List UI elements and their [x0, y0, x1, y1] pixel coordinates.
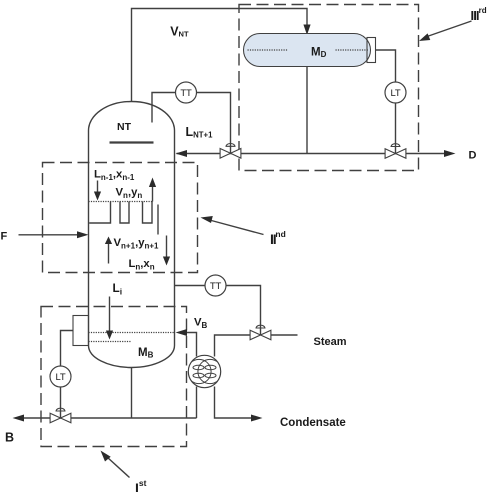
arrowhead condensate	[251, 415, 263, 422]
svg-text:IInd: IInd	[270, 229, 286, 247]
arrow L_i down	[109, 297, 111, 331]
column level bracket	[73, 316, 89, 346]
tray cup 1	[120, 202, 129, 224]
wire bracket to LT	[376, 50, 396, 82]
svg-text:VB: VB	[194, 317, 208, 331]
svg-text:VNT: VNT	[170, 25, 189, 39]
arrowhead into drum	[303, 25, 310, 36]
wire steam inlet	[271, 334, 298, 336]
arrow L_n down	[166, 236, 168, 257]
wire reboiler liquid to B line	[196, 387, 198, 419]
svg-text:Ln-1,xn-1: Ln-1,xn-1	[94, 169, 135, 183]
drum level dotted line left	[248, 49, 288, 51]
wire reboiler vapor V_B	[187, 333, 197, 357]
box II (2nd section dashed boundary)	[43, 163, 198, 273]
temperature transmitter TT (top)	[176, 82, 197, 103]
wire bottoms B line	[24, 417, 197, 419]
svg-text:Vn,yn: Vn,yn	[116, 187, 143, 201]
drum level dotted line right	[336, 49, 369, 51]
reflux valve	[220, 149, 241, 159]
wire V_NT vapor line	[132, 9, 308, 102]
arrow to box II	[210, 220, 264, 235]
box I (1st section dashed boundary)	[41, 307, 187, 447]
tray cup 2	[143, 202, 153, 224]
wire TT to steam valve	[226, 286, 261, 336]
arrow V_n+1 up	[108, 244, 110, 264]
arrowhead V_B into column	[176, 329, 188, 336]
svg-text:LNT+1: LNT+1	[186, 125, 214, 140]
distillate valve	[385, 149, 406, 159]
tray dotted line	[89, 201, 153, 203]
temperature transmitter TT (bottom)	[205, 275, 226, 296]
wire LT to valve	[60, 387, 62, 418]
column vessel	[89, 102, 175, 368]
svg-text:TT: TT	[180, 88, 192, 99]
wire LT to bracket	[61, 331, 74, 367]
svg-text:LT: LT	[391, 88, 401, 99]
wire reflux/distillate line	[177, 153, 445, 155]
svg-text:NT: NT	[117, 121, 132, 133]
wire TT to reflux valve	[197, 93, 231, 154]
svg-text:F: F	[1, 231, 8, 243]
arrow to box III	[429, 21, 472, 36]
svg-text:Steam: Steam	[314, 336, 347, 348]
box III (3rd section dashed boundary)	[239, 5, 419, 171]
arrowhead B	[13, 415, 25, 422]
wire TT to column (bottom)	[175, 285, 206, 287]
svg-text:IIIrd: IIIrd	[471, 6, 487, 23]
sump level dotted line lower	[89, 341, 132, 343]
wire TT to column thermowell	[152, 93, 176, 123]
column drain wire	[131, 368, 133, 419]
wire steam valve to reboiler	[215, 335, 251, 357]
svg-text:MB: MB	[138, 347, 154, 360]
wire condensate outlet	[215, 387, 252, 419]
reboiler heat exchanger	[188, 355, 220, 387]
arrowhead D	[444, 150, 456, 157]
svg-text:Ist: Ist	[135, 478, 147, 492]
sump level dotted line upper	[89, 332, 175, 334]
steam valve	[250, 330, 271, 340]
arrow to box I	[107, 457, 130, 478]
svg-text:TT: TT	[210, 281, 222, 292]
drum level bracket	[367, 38, 376, 63]
bottoms valve	[50, 413, 71, 423]
svg-text:B: B	[5, 431, 14, 445]
level transmitter LT (bottom)	[50, 366, 71, 387]
arrow V_n up	[152, 187, 154, 202]
svg-text:Condensate: Condensate	[280, 417, 346, 429]
feed arrow F	[19, 234, 79, 236]
wire LT to distillate valve	[395, 103, 397, 154]
svg-text:Ln,xn: Ln,xn	[129, 258, 155, 272]
column top tray line	[110, 141, 154, 143]
level transmitter LT (drum)	[385, 82, 406, 103]
svg-text:Li: Li	[113, 281, 123, 297]
reflux drum MD	[244, 34, 371, 67]
svg-text:Vn+1,yn+1: Vn+1,yn+1	[114, 237, 160, 251]
wire drum drain	[306, 67, 308, 154]
tray left downcomer channel	[89, 202, 110, 224]
arrowhead reflux into column	[176, 150, 188, 157]
arrow L_n-1 down	[97, 181, 99, 193]
tray right downcomer wall	[157, 205, 159, 235]
svg-text:D: D	[469, 150, 477, 162]
svg-text:LT: LT	[56, 372, 66, 383]
